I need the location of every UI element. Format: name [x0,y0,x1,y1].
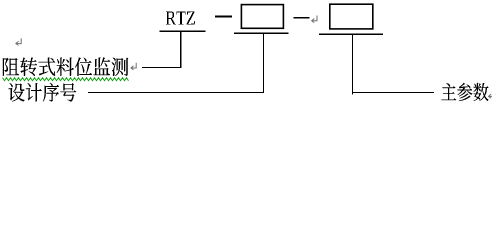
dash 2 (between box 1 and box 2) [293,17,309,19]
line below box 1 [234,33,289,34]
return mark after 阻转式料位监测 [131,63,136,70]
line below box 2 [319,34,383,35]
model prefix text RTZ [166,11,195,24]
label text 阻转式料位监测 (rotary resistance level monitoring) [3,57,128,76]
green spell-check squiggle under 阻转式料位监测 [3,78,129,81]
return mark on empty first line [16,38,21,45]
leader horizontal from box 2 to 主参数 [352,92,434,93]
label text 设计序号 (design serial number) [8,83,76,102]
leader vertical from box 2 [352,35,353,95]
leader vertical from box 1 [263,34,264,93]
dash 1 (between RTZ and box 1) [215,16,232,18]
return mark after dash 2 [312,16,317,23]
leader horizontal from 设计序号 to box 1 [88,92,264,93]
box 1 (design serial placeholder) [241,5,283,29]
leader vertical from RTZ underline [180,32,181,68]
leader horizontal to RTZ (from 阻转式料位监测) [142,67,182,68]
return mark after 主参数 (clipped at right edge) [489,91,492,98]
underline below RTZ [160,31,206,32]
label text 主参数 (main parameter) [441,83,488,101]
box 2 (main parameter placeholder) [330,4,373,29]
